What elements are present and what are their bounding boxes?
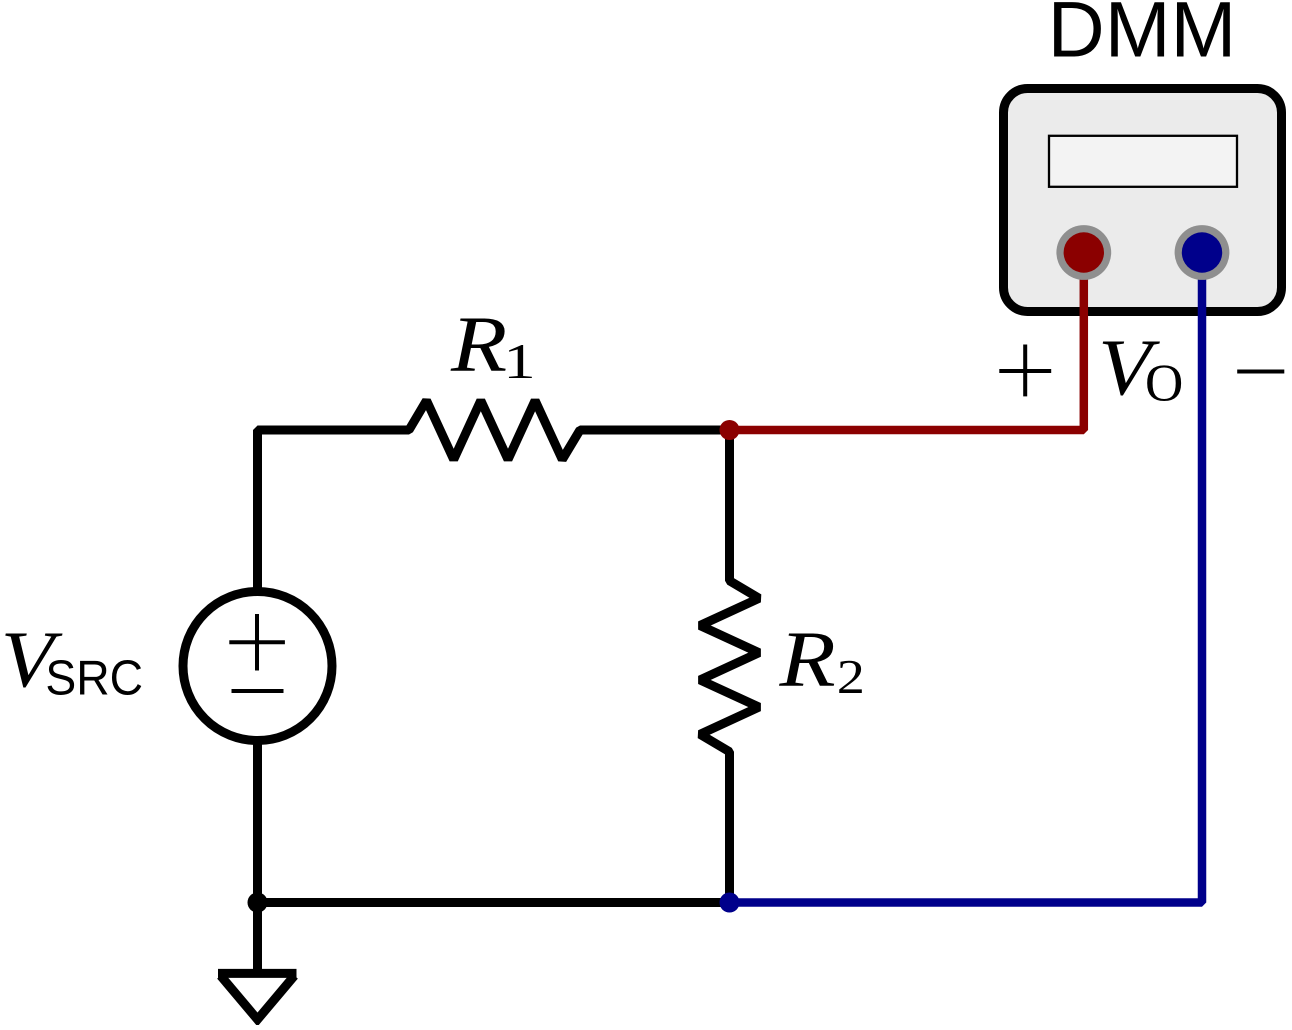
DMM U1 (multimeter body) bbox=[1004, 89, 1282, 312]
svg-text:R: R bbox=[450, 300, 507, 389]
svg-text:DMM: DMM bbox=[1048, 0, 1237, 74]
node B (junction dot, blue) bbox=[720, 893, 740, 913]
wire top-left corner, resistor R1 zigzag, node A branch, resistor R2 zigzag, bottom wire bbox=[258, 401, 760, 903]
wire blue probe lead (DMM - terminal to node B) bbox=[730, 253, 1203, 903]
svg-text:O: O bbox=[1145, 355, 1183, 413]
wire source bottom to ground bbox=[253, 740, 262, 973]
DMM blue terminal bbox=[1175, 225, 1230, 280]
node ground junction dot bbox=[248, 893, 268, 913]
DMM display bbox=[1049, 136, 1237, 187]
voltage source VSRC (circle) bbox=[183, 592, 332, 741]
svg-text:SRC: SRC bbox=[45, 651, 143, 706]
node A (junction dot, red) bbox=[720, 420, 740, 440]
svg-text:1: 1 bbox=[503, 333, 535, 389]
VSRC minus sign bbox=[232, 689, 284, 693]
label + (polarity of Vo) bbox=[999, 345, 1051, 397]
VSRC plus sign bbox=[229, 614, 285, 671]
svg-text:2: 2 bbox=[837, 650, 865, 704]
DMM red terminal bbox=[1056, 225, 1111, 280]
label - (polarity of Vo) bbox=[1237, 370, 1284, 374]
ground bbox=[218, 969, 297, 978]
wire red probe lead (DMM + terminal to node A) bbox=[730, 253, 1084, 431]
svg-text:R: R bbox=[778, 615, 835, 704]
